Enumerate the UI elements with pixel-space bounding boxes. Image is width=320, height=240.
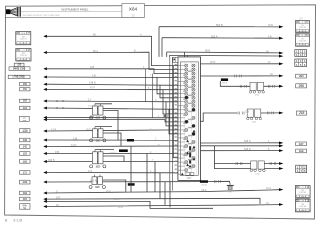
instrument cluster block inner [180,62,198,175]
left arrow 1 [43,35,47,38]
wire row8 to pin10 [47,108,178,109]
svg-text:160 B: 160 B [48,159,55,162]
left row 11 box [20,138,31,142]
wire drop into block top b [186,55,188,57]
left row 8 box [20,106,31,110]
svg-text:123: 123 [23,107,28,110]
wire C1 [167,51,280,54]
right arrow D [279,62,283,65]
block pin ticks and numbers [178,66,180,175]
block interior column guides [185,63,196,175]
wire row17 long to arrow K [47,190,280,193]
svg-text:1262 80: 1262 80 [20,55,27,57]
svg-text:171: 171 [23,171,28,174]
switch component S3 [90,150,106,169]
svg-text:125 C: 125 C [244,140,251,143]
wire row1 to pin1 [47,36,178,65]
title strip bottom line [6,16,145,18]
svg-text:150: 150 [23,83,28,86]
left row 10 box [20,129,31,134]
svg-text:97 D: 97 D [210,61,215,64]
svg-text:150: 150 [22,119,27,122]
left arrow 5 [43,83,47,86]
switch component S1 [90,104,106,120]
left arrow 18 [43,192,47,195]
svg-text:125: 125 [90,66,95,69]
svg-text:1347: 1347 [186,178,192,180]
right grid box J [296,165,307,173]
svg-text:203 B: 203 B [222,83,228,85]
svg-text:30: 30 [131,13,135,17]
wire row9b to pin14 [47,120,178,122]
wire row3 to pin3 [47,69,178,74]
stub S2 top [95,126,112,128]
svg-text:206: 206 [299,85,304,89]
right grid box C [295,50,307,57]
right arrow A [279,25,283,28]
wire J2 right [264,168,279,170]
svg-text:MAS 1350: MAS 1350 [14,67,26,70]
title strip mid divider [21,11,122,13]
left row 7 box [20,99,31,102]
stub S3 to row14 [103,156,124,162]
right arrow C2 [279,55,283,58]
svg-text:197: 197 [56,197,61,200]
svg-text:183 A: 183 A [90,179,97,182]
stub S2 to row12 [103,133,121,147]
routing vertical v12 [159,173,161,199]
svg-text:167: 167 [299,143,304,146]
block bottom symbol triangle [181,173,184,176]
right arrow E [279,75,283,78]
svg-text:138: 138 [23,139,28,142]
svg-text:X64: X64 [129,7,138,12]
svg-text:THE D300: THE D300 [14,76,25,79]
connector node circle [163,114,167,118]
component box 247 (left row 1) [16,32,31,45]
switch component S4 [89,175,105,189]
left arrow 17 [43,181,47,184]
svg-text:218: 218 [245,110,250,113]
svg-text:1267: 1267 [299,209,307,212]
wire F right segment [264,85,280,87]
connector ticks on wire J1 [236,162,238,165]
svg-text:1262 80: 1262 80 [299,192,306,194]
wire row12 to pin20 [47,145,178,148]
trunk vertical to wire B [161,38,163,57]
right arrow L [279,203,283,206]
black label near row11 [127,139,134,142]
right box G [296,111,306,116]
right arrow G [279,112,283,115]
left arrow 3 [43,67,47,70]
wire row16 under block to splice label [47,181,200,183]
wire row15 to pin27 [47,172,178,174]
svg-text:155: 155 [23,152,28,155]
X64 cell [122,4,144,18]
routing vertical v13 [164,182,166,205]
connector label box (left row 3 upper) [14,63,24,66]
instrument cluster block outer [178,57,201,180]
right box I [296,149,307,153]
left arrow 21 [43,205,47,208]
component box 260 (left row 2) [16,49,31,62]
left row 5 box [20,82,31,86]
svg-text:171: 171 [88,170,93,173]
svg-text:1262: 1262 [19,42,27,45]
right arrow K [279,188,283,191]
trunk vertical c1 [166,52,168,57]
svg-text:1260: 1260 [20,58,28,61]
ground symbol [227,183,234,193]
left row 19 box (two-line) [20,204,31,210]
right component box K [295,186,310,199]
wire row18a long [47,198,260,204]
trunk filler v20 [145,69,147,102]
svg-text:96 B: 96 B [205,49,210,52]
black label right of S4 [128,183,135,186]
left arrow 11 [43,130,47,133]
svg-text:INSTRUMENT PANEL: INSTRUMENT PANEL [62,7,89,11]
wire B top [162,37,280,40]
svg-text:1262 80: 1262 80 [299,40,306,42]
block top attach box [173,57,178,62]
svg-text:4 B: 4 B [92,74,96,77]
routing vertical v10 [146,154,148,192]
wire H [201,142,280,144]
splice marks row8 [56,107,58,109]
wire J1 right [264,163,279,165]
connector ticks on wire G [238,112,240,115]
right box E [296,74,307,78]
warning lamp bulbs [180,64,195,172]
svg-text:160: 160 [22,160,27,163]
wire row2 to pin2 [47,52,178,69]
svg-text:30 B: 30 B [268,25,273,27]
svg-text:77 B: 77 B [88,105,93,108]
left arrow 8 [43,107,47,110]
wire J2 left [215,164,251,169]
svg-text:203: 203 [299,74,304,78]
svg-text:9 B: 9 B [268,36,272,39]
left arrow 2 [43,51,47,54]
left arrow 4 [43,76,47,79]
wire number labels left [48,34,98,207]
block center dark bar segments [189,146,191,168]
harness connector icon [6,8,20,17]
wire C2 [170,54,280,57]
black label near row13 [119,149,128,152]
right arrow H2 [279,144,283,147]
svg-text:1264: 1264 [299,195,307,198]
svg-text:4 7A: 4 7A [51,128,56,131]
left arrow 13 [43,145,47,148]
branch row6 to pin12 [163,90,178,114]
left arrow 15 [43,160,47,163]
wire E [201,75,280,77]
wire A top [159,26,280,28]
left row 16 box [20,180,31,184]
svg-text:B: B [5,218,8,223]
left row 15 box [20,171,31,175]
trunk filler v21 [152,74,154,118]
left arrow 19 [43,198,47,201]
svg-text:1250: 1250 [299,43,307,46]
stub S1 to row11 [103,111,118,141]
left row 17 box [20,191,31,195]
branch row5 to pin8 [160,85,178,98]
svg-text:20 A: 20 A [202,189,207,192]
trunk vertical to wire A [158,27,160,57]
svg-text:168: 168 [299,150,304,153]
svg-text:138: 138 [73,137,78,140]
svg-text:30 D: 30 D [86,128,91,131]
component box row 3 [9,67,30,71]
wire row18b long [47,201,213,208]
splice black bar 203 [221,78,228,81]
right arrow J2 [279,167,283,170]
right arrow F [279,85,283,88]
wire row14 to pin23 [47,161,178,163]
wire G left segment [201,113,238,121]
left row 18 box [20,197,31,201]
switch component S2 [90,127,106,143]
left row 13 box [20,152,31,156]
component box row 4 [8,75,30,78]
wire D [201,63,280,65]
right component box B [296,34,310,46]
left row 9 box (two-line) [20,116,30,122]
svg-text:166 A: 166 A [110,152,116,155]
wire row4 to pin4 [47,76,178,79]
svg-text:130: 130 [22,130,27,134]
block legend text blobs [183,71,193,169]
left arrow 6 [43,88,47,91]
left arrow 10 [43,118,47,121]
wire to ground G1 [208,181,230,183]
wire F left segment [220,81,250,86]
left arrow 20 [43,200,47,203]
wire row5 to pin5 [47,84,178,85]
right arrow I [279,149,283,152]
inline component on wire F [249,82,264,96]
left arrow 14 [43,152,47,155]
svg-text:502 A: 502 A [211,35,218,38]
svg-text:152: 152 [90,115,95,118]
stub S3 top [95,149,114,151]
channel vertical b [171,57,173,191]
svg-text:20 A: 20 A [106,190,111,193]
svg-text:47 F: 47 F [90,87,95,90]
routing vertical v15 [130,147,132,192]
left arrow 12 [43,139,47,142]
svg-text:1262 80: 1262 80 [20,38,27,40]
splice marks row7 [56,100,58,102]
right arrow H [279,142,283,145]
svg-text:AL: AL [301,34,303,37]
routing vertical v14 [169,182,171,208]
wire row9a to pin13 [47,117,178,119]
trunk vertical c2 [169,55,171,57]
svg-text:3-1/8: 3-1/8 [13,218,23,223]
svg-text:502 B: 502 B [216,24,223,27]
svg-text:16 A: 16 A [266,187,271,190]
wire row11 to pin18 [47,139,178,141]
branch row4 to pin7 [157,77,178,94]
connector ticks on wire E [235,75,237,78]
right box H [296,142,307,146]
wire G right segment [261,112,280,114]
svg-text:14 D: 14 D [71,144,76,147]
right grid box D [295,59,307,67]
right arrow B [279,37,283,40]
right box F [296,84,307,89]
right arrow C1 [279,52,283,55]
wire J1 left with feed vertical [215,146,251,164]
wire I [201,150,280,152]
wire row6 to pin6 [47,88,178,90]
block bottom cells 1347 [186,172,194,176]
left arrow 16 [43,171,47,174]
wire row13 to pin21 [47,153,178,155]
inline component on wire J [250,161,265,175]
connector ticks on wire F [240,85,242,88]
svg-text:218: 218 [299,112,304,116]
channel vertical a [169,57,171,191]
wire labels near right arrows [245,36,273,205]
svg-text:125 D: 125 D [244,148,251,151]
branch row8 to pin17 [169,109,178,134]
svg-text:139: 139 [17,64,22,67]
svg-text:197: 197 [23,198,28,201]
wire row7 to pin9 [47,100,178,103]
svg-text:90 A: 90 A [93,50,98,53]
right arrow J1 [279,162,283,165]
svg-text:WITH AND WITHOUT TRIP COMPUTER: WITH AND WITHOUT TRIP COMPUTER [23,14,60,17]
right component box A [296,21,310,33]
left row 6 box [20,88,31,91]
title strip divider after icon [20,6,22,17]
svg-text:183: 183 [22,180,27,184]
routing vertical v11 [154,162,156,193]
svg-text:1247: 1247 [299,29,307,32]
right component box L [295,199,310,212]
svg-text:16 B: 16 B [118,207,123,209]
wire row19 long to arrow L [47,205,280,207]
svg-text:1262 80: 1262 80 [299,206,306,208]
svg-text:142: 142 [23,145,28,148]
svg-text:250 A: 250 A [201,184,207,187]
svg-text:192: 192 [23,192,28,195]
trunk vertical feeder to pin22 [173,66,178,158]
connector ticks on ground wire [214,180,216,183]
splice label black bar 250 [200,180,208,183]
stub S1 top [95,103,112,105]
block dark glyph cluster lower rows [186,96,195,167]
svg-text:148 B: 148 B [89,82,96,85]
stub S4 to long wire [103,180,126,192]
svg-text:155: 155 [55,151,60,154]
left arrow 9 [43,116,47,119]
wire row10 to pin16 [47,130,178,131]
left row 12 box [20,145,31,149]
branch row7 to pin15 [166,102,178,126]
inline component on wire G [247,109,262,123]
left arrow 7 [43,100,47,103]
wire drop into block top a [184,52,186,57]
svg-text:166 A: 166 A [114,198,120,201]
wire H2 [201,145,280,147]
left row 14 box [20,160,31,164]
